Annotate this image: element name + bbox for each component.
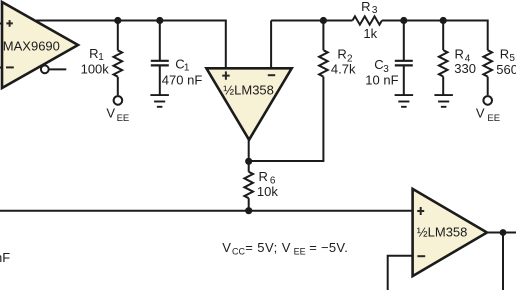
svg-text:R: R	[500, 46, 509, 61]
svg-text:6: 6	[270, 176, 276, 187]
svg-text:3: 3	[383, 64, 389, 75]
svg-text:10 nF: 10 nF	[365, 72, 398, 87]
svg-text:V: V	[106, 106, 115, 121]
svg-text:½LM358: ½LM358	[223, 83, 274, 98]
svg-text:1: 1	[98, 52, 104, 63]
svg-text:EE: EE	[117, 113, 130, 124]
svg-text:V: V	[476, 106, 485, 121]
svg-text:R: R	[259, 169, 268, 184]
svg-text:R: R	[361, 0, 370, 14]
svg-text:470 nF: 470 nF	[162, 73, 203, 88]
svg-text:MAX9690: MAX9690	[3, 39, 60, 54]
svg-text:1: 1	[184, 62, 190, 73]
svg-text:EE: EE	[294, 246, 306, 256]
svg-text:= 5V; V: = 5V; V	[245, 240, 291, 255]
svg-text:nF: nF	[0, 250, 10, 265]
svg-text:C: C	[374, 57, 383, 72]
svg-text:½LM358: ½LM358	[417, 225, 468, 240]
svg-text:R: R	[337, 46, 346, 61]
svg-text:= −5V.: = −5V.	[309, 240, 348, 255]
svg-text:1k: 1k	[363, 26, 377, 41]
svg-text:R: R	[89, 46, 98, 61]
svg-text:100k: 100k	[81, 61, 110, 76]
svg-text:R: R	[455, 46, 464, 61]
svg-text:560: 560	[496, 62, 516, 77]
svg-text:V: V	[222, 240, 231, 255]
svg-text:2: 2	[347, 53, 353, 64]
svg-text:3: 3	[372, 5, 378, 16]
svg-text:5: 5	[509, 53, 515, 64]
svg-text:CC: CC	[232, 246, 245, 256]
svg-text:4: 4	[465, 53, 471, 64]
svg-text:EE: EE	[487, 113, 500, 124]
